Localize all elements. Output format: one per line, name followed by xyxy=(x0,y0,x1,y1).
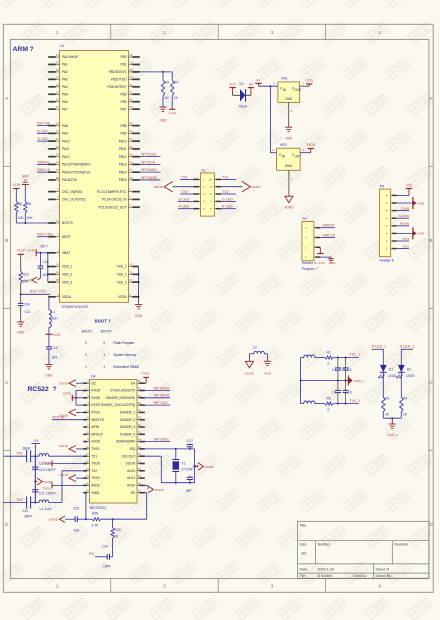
junction BOOT0/R9 xyxy=(24,222,26,224)
wire R LED down xyxy=(382,349,384,365)
svg-text:12: 12 xyxy=(56,68,59,72)
svg-text:U1: U1 xyxy=(60,44,64,48)
svg-text:Sheet of: Sheet of xyxy=(376,567,389,571)
svg-text:Date:: Date: xyxy=(300,567,309,571)
svg-text:TVSS: TVSS xyxy=(91,476,99,480)
svg-text:C4: C4 xyxy=(332,390,336,394)
svg-text:PA14/JTCK/SWCLK: PA14/JTCK/SWCLK xyxy=(62,170,92,174)
resistor R4 xyxy=(171,72,173,80)
svg-text:45: 45 xyxy=(129,122,132,126)
svg-text:SWCLK: SWCLK xyxy=(37,168,50,172)
power +3.3V at L1/C13 node xyxy=(46,333,52,335)
power SGND at U4 TVSS pin10 xyxy=(76,448,84,450)
svg-text:PB9: PB9 xyxy=(120,132,126,136)
power 4V at D1 cathode xyxy=(250,88,252,96)
svg-text:10K: 10K xyxy=(27,216,34,220)
ground GND P5 pin7 xyxy=(397,202,413,204)
svg-text:VSSA: VSSA xyxy=(118,295,127,299)
svg-text:PA3: PA3 xyxy=(62,78,68,82)
svg-text:OUT: OUT xyxy=(295,88,302,92)
svg-text:R LED_1: R LED_1 xyxy=(372,345,387,349)
svg-text:+3.3V: +3.3V xyxy=(317,261,326,265)
wire VR2 GND pin 1 xyxy=(288,170,290,196)
capacitor C20 15P xyxy=(189,476,191,478)
power TVDD at U4 AVDD pin15 xyxy=(52,484,84,486)
net label MT2 P5 pin1 xyxy=(397,248,410,250)
IC U1 pin VBAT xyxy=(48,252,56,254)
svg-text:C22: C22 xyxy=(22,509,28,513)
svg-text:22: 22 xyxy=(138,452,141,456)
svg-text:PA15/JTDI: PA15/JTDI xyxy=(62,178,77,182)
IC U1 left pins OSC_IN OSC_OUT xyxy=(48,191,56,193)
svg-text:C2: C2 xyxy=(347,368,351,372)
svg-text:SGND: SGND xyxy=(205,465,215,469)
svg-text:30: 30 xyxy=(138,394,141,398)
svg-text:D2/ADR_4: D2/ADR_4 xyxy=(120,425,135,429)
svg-text:GND: GND xyxy=(285,137,293,141)
svg-text:OSCOUT: OSCOUT xyxy=(122,454,136,458)
svg-text:SPI SCK: SPI SCK xyxy=(154,401,169,405)
svg-text:GND: GND xyxy=(264,372,272,376)
svg-text:1K: 1K xyxy=(165,96,170,100)
svg-text:I2C: I2C xyxy=(91,381,97,385)
svg-text:1K: 1K xyxy=(403,413,408,417)
svg-text:RX: RX xyxy=(34,439,40,443)
wire 4V rail down to VR2 xyxy=(269,86,271,153)
svg-text:15: 15 xyxy=(86,481,89,485)
junction VDD bus xyxy=(47,252,49,254)
svg-text:19: 19 xyxy=(138,474,141,478)
svg-text:MF RC522: MF RC522 xyxy=(90,506,107,510)
svg-text:0: 0 xyxy=(85,353,87,357)
svg-text:TX1: TX1 xyxy=(16,452,23,456)
svg-text:PVDD: PVDD xyxy=(91,389,101,393)
svg-text:2: 2 xyxy=(163,30,166,35)
svg-text:TX2_1: TX2_1 xyxy=(350,399,361,403)
svg-text:2016-1-29: 2016-1-29 xyxy=(318,567,334,571)
svg-text:104: 104 xyxy=(74,529,80,533)
svg-text:RST RF: RST RF xyxy=(37,122,51,126)
svg-text:G LED_1: G LED_1 xyxy=(400,345,415,349)
capacitor C13 xyxy=(46,346,52,348)
svg-text:SS34: SS34 xyxy=(239,104,247,108)
wire D2 to R4 xyxy=(400,372,402,397)
svg-text:15: 15 xyxy=(56,90,59,94)
svg-text:D:\folder\: D:\folder\ xyxy=(318,574,333,578)
svg-text:RST RF: RST RF xyxy=(53,416,67,420)
IC U4 left pins xyxy=(83,382,87,384)
svg-text:RST CPU: RST CPU xyxy=(30,290,46,294)
svg-text:R LED: R LED xyxy=(222,205,233,209)
resistor R9 xyxy=(24,185,26,202)
svg-text:C13: C13 xyxy=(51,346,57,350)
svg-text:PC13-TAMPER-RTC: PC13-TAMPER-RTC xyxy=(97,190,127,194)
svg-text:4: 4 xyxy=(378,584,381,589)
svg-text:TX1: TX1 xyxy=(91,454,97,458)
svg-text:D3/ADR_3: D3/ADR_3 xyxy=(120,418,135,422)
svg-text:SGND: SGND xyxy=(154,185,164,189)
svg-text:SPI SCK: SPI SCK xyxy=(141,160,156,164)
svg-text:MFOUT: MFOUT xyxy=(91,432,102,436)
svg-text:46: 46 xyxy=(129,129,132,133)
svg-text:1: 1 xyxy=(56,30,59,35)
svg-text:32: 32 xyxy=(56,145,59,149)
svg-text:R1: R1 xyxy=(327,350,331,354)
svg-text:+3.3V: +3.3V xyxy=(52,333,61,337)
diode D1 SS34 xyxy=(240,89,245,102)
wire L1 to C13 xyxy=(48,328,50,347)
svg-text:20: 20 xyxy=(138,467,141,471)
net label SPI MISO on PB14 xyxy=(140,171,161,173)
power VCC P5 pin8 xyxy=(397,194,410,196)
capacitor C21 150PF xyxy=(34,482,36,490)
capacitor C2 xyxy=(345,358,347,368)
svg-text:ARM: ARM xyxy=(13,46,29,53)
svg-text:TX2: TX2 xyxy=(91,469,97,473)
svg-text:IRQ: IRQ xyxy=(130,447,136,451)
capacitor C23 xyxy=(74,516,76,522)
svg-text:GND: GND xyxy=(135,314,143,318)
svg-text:25: 25 xyxy=(129,263,132,267)
svg-text:MFIN: MFIN xyxy=(91,425,99,429)
svg-text:R20: R20 xyxy=(114,528,120,532)
svg-text:?: ? xyxy=(30,46,34,53)
LED D2 xyxy=(398,365,405,372)
svg-text:Drawn By:: Drawn By: xyxy=(376,574,393,578)
svg-text:D1: D1 xyxy=(240,82,244,86)
svg-text:PB6: PB6 xyxy=(120,100,126,104)
resistor R3 1K (LED) xyxy=(382,397,385,412)
svg-text:68PF: 68PF xyxy=(25,515,33,519)
svg-text:SPI MISO: SPI MISO xyxy=(154,386,170,390)
svg-text:P1: P1 xyxy=(202,169,206,173)
svg-text:Y1: Y1 xyxy=(181,462,185,466)
svg-text:D6/ADR_0/MOSI/NL: D6/ADR_0/MOSI/NL xyxy=(106,396,135,400)
wire BOOT0 net xyxy=(16,222,48,224)
svg-text:MT1: MT1 xyxy=(403,237,409,241)
wire U4 RX pin17 down xyxy=(145,492,147,494)
svg-text:R9: R9 xyxy=(27,202,31,206)
IC U1 right pins PB0-PB7 xyxy=(129,56,133,58)
resistor R2 0 xyxy=(325,402,333,405)
svg-text:33: 33 xyxy=(56,153,59,157)
svg-text:PA12: PA12 xyxy=(62,155,70,159)
svg-text:1: 1 xyxy=(103,365,105,369)
svg-text:SPI SSEL: SPI SSEL xyxy=(154,438,170,442)
svg-text:AUX1: AUX1 xyxy=(127,476,136,480)
wire match top net xyxy=(301,357,304,359)
svg-text:KeySW: KeySW xyxy=(399,214,409,218)
connector P1 left pins xyxy=(194,178,200,180)
svg-text:SDA/NSS/RX: SDA/NSS/RX xyxy=(116,440,136,444)
IC U1 pin BOOT0 xyxy=(48,222,56,224)
svg-text:39: 39 xyxy=(129,75,132,79)
capacitor C22 68PF xyxy=(26,497,28,509)
svg-text:G LED: G LED xyxy=(179,197,190,201)
svg-text:TX2: TX2 xyxy=(222,190,229,194)
svg-text:LED0: LED0 xyxy=(388,374,397,378)
IC U1 pin VDDA xyxy=(48,296,56,298)
power SGND left P1 pin2 xyxy=(172,186,193,188)
svg-text:RXSW: RXSW xyxy=(400,222,409,226)
svg-text:1K: 1K xyxy=(385,413,390,417)
power +3.3V P4 pin2 xyxy=(319,247,321,253)
svg-text:PA0-WKUP: PA0-WKUP xyxy=(62,55,78,59)
net label RST CPU wire xyxy=(21,293,50,295)
power +3.3V at R8 top xyxy=(13,188,19,190)
net label MT1 P5 pin2 xyxy=(397,240,410,242)
svg-text:ZS8N: ZS8N xyxy=(401,207,409,211)
IC U1 left pins PA8-PA15 xyxy=(48,125,56,127)
svg-text:L3: L3 xyxy=(40,461,44,465)
svg-text:21: 21 xyxy=(129,137,132,141)
svg-text:P4: P4 xyxy=(303,217,307,221)
net label ZS8N P5 pin6 xyxy=(397,210,410,212)
wire G LED down xyxy=(400,349,402,365)
power +3.3V below R4 xyxy=(169,108,175,110)
net label SWDIO on PA13 xyxy=(37,163,49,165)
svg-text:System Memory: System Memory xyxy=(113,353,136,357)
wire R13 to C11 xyxy=(20,283,22,303)
capacitor C11 xyxy=(18,302,24,304)
svg-text:AVDD: AVDD xyxy=(91,484,100,488)
capacitor C19 150PF xyxy=(34,456,36,467)
wire VDD bus vertical xyxy=(47,253,49,282)
connector P1 right pins xyxy=(214,178,215,180)
resistor R20 xyxy=(112,519,114,527)
svg-text:Size: Size xyxy=(300,543,307,547)
net label RXSW P5 pin4 xyxy=(397,225,410,227)
svg-text:VDDA: VDDA xyxy=(62,295,72,299)
wire PB2/BOOT1 to R3 R4 xyxy=(140,71,173,73)
svg-text:G LED: G LED xyxy=(37,137,48,141)
svg-text:PB15: PB15 xyxy=(119,178,127,182)
inductor match bottom xyxy=(304,401,315,404)
power SGND at U4 pin1 I2C xyxy=(76,382,84,384)
svg-text:R26: R26 xyxy=(92,512,98,516)
svg-text:BOOT1: BOOT1 xyxy=(82,329,93,333)
svg-text:10: 10 xyxy=(86,445,89,449)
svg-text:SGND: SGND xyxy=(49,518,59,522)
svg-text:2.7K: 2.7K xyxy=(92,524,100,528)
power TVDD at U4 EA pin32 xyxy=(145,382,147,384)
net label SPI SCK at U4 D5 xyxy=(145,404,171,406)
svg-text:TVDD: TVDD xyxy=(42,486,51,490)
svg-text:PB10: PB10 xyxy=(119,139,127,143)
net label SWCLK on PA14 xyxy=(37,171,49,173)
junction C10 xyxy=(40,252,42,254)
svg-text:1uH: 1uH xyxy=(45,461,52,465)
svg-text:23: 23 xyxy=(138,445,141,449)
svg-text:PC15-OSC32_OUT: PC15-OSC32_OUT xyxy=(99,205,127,209)
svg-text:10K: 10K xyxy=(18,216,25,220)
svg-text:PB8: PB8 xyxy=(120,124,126,128)
svg-text:D5/ADR_1/SCLK/DTRQ: D5/ADR_1/SCLK/DTRQ xyxy=(101,403,136,407)
svg-text:R13: R13 xyxy=(22,272,28,276)
svg-text:SGND: SGND xyxy=(155,488,165,492)
wire LED common xyxy=(383,417,401,419)
svg-text:25: 25 xyxy=(138,430,141,434)
svg-text:GND: GND xyxy=(22,175,30,179)
svg-text:1uH: 1uH xyxy=(51,317,58,321)
svg-text:48: 48 xyxy=(56,278,59,282)
svg-text:BOOT0: BOOT0 xyxy=(101,329,112,333)
svg-text:PB13: PB13 xyxy=(119,163,127,167)
svg-text:R3: R3 xyxy=(165,81,169,85)
svg-text:VBAT: VBAT xyxy=(62,251,70,255)
wire VDDA to L1 xyxy=(48,296,50,298)
svg-text:SGND: SGND xyxy=(59,473,69,477)
net label TX1 right P1 pin10 xyxy=(221,178,236,180)
svg-text:B: B xyxy=(429,238,432,243)
svg-text:SVDD: SVDD xyxy=(91,440,101,444)
svg-text:SGND: SGND xyxy=(59,444,69,448)
svg-text:29: 29 xyxy=(56,122,59,126)
svg-text:TVSS: TVSS xyxy=(91,447,99,451)
net label SPI SSEL on PB12 xyxy=(140,156,161,158)
IC U1 right pins VSS_1 VSS_2 VSS_3 xyxy=(129,266,133,268)
wire L2 left down xyxy=(248,354,250,362)
wire D1 to 4V xyxy=(246,94,251,96)
resistor R8 xyxy=(15,189,17,202)
IC U4 right pins xyxy=(137,382,139,384)
power GND arrow at C10 xyxy=(38,278,41,280)
crystal Y1 27.12M xyxy=(175,449,177,460)
svg-text:29: 29 xyxy=(138,401,141,405)
svg-text:3: 3 xyxy=(271,584,274,589)
svg-text:C17: C17 xyxy=(187,439,193,443)
ground GND below VR1 xyxy=(285,126,292,128)
IC U1 right pins PB8-PB15 xyxy=(129,125,133,127)
svg-text:1uH: 1uH xyxy=(45,507,52,511)
svg-text:PA1: PA1 xyxy=(62,63,68,67)
svg-text:PC14-OSC32_IN: PC14-OSC32_IN xyxy=(102,198,127,202)
svg-text:G LED: G LED xyxy=(222,197,233,201)
svg-text:OSC_IN(PD0): OSC_IN(PD0) xyxy=(62,190,82,194)
svg-text:PA6: PA6 xyxy=(62,100,68,104)
svg-text:17: 17 xyxy=(56,105,59,109)
power SGND at U4 AVSS pin18 xyxy=(145,484,149,486)
IC U1 right pin VSSA xyxy=(129,296,133,298)
svg-text:15PF: 15PF xyxy=(103,565,111,569)
svg-text:OSC_OUT(PD1): OSC_OUT(PD1) xyxy=(62,198,86,202)
wire OSCIN to crystal xyxy=(145,455,162,457)
net label RST CPU on NRST xyxy=(37,236,49,238)
svg-text:1K: 1K xyxy=(174,96,179,100)
svg-text:PA13/JTMS/SWDIO: PA13/JTMS/SWDIO xyxy=(62,163,91,167)
svg-text:L4: L4 xyxy=(40,507,44,511)
svg-text:35: 35 xyxy=(129,270,132,274)
wire match bottom net xyxy=(301,403,304,405)
svg-text:D4/ADR_2: D4/ADR_2 xyxy=(120,411,135,415)
wire VBAT/VDD xyxy=(36,252,48,254)
capacitor C1 xyxy=(337,358,339,368)
svg-text:GND: GND xyxy=(285,97,293,101)
svg-text:?: ? xyxy=(108,319,111,324)
inductor L4 1uH xyxy=(39,500,49,503)
svg-text:C21 150PF: C21 150PF xyxy=(39,492,56,496)
svg-text:VMID: VMID xyxy=(91,491,100,495)
connector P5 pins xyxy=(391,194,392,196)
svg-text:10: 10 xyxy=(56,53,59,57)
svg-text:VDD_1: VDD_1 xyxy=(62,265,73,269)
svg-text:D1/ADR_5: D1/ADR_5 xyxy=(120,432,135,436)
net label TX2 right P1 pin8 xyxy=(221,193,236,195)
net label SWCLK P4 pin3 xyxy=(320,237,335,239)
svg-text:Flash Program: Flash Program xyxy=(113,341,134,345)
svg-text:R LED: R LED xyxy=(179,205,190,209)
svg-text:C24: C24 xyxy=(102,545,108,549)
svg-text:RST CPU: RST CPU xyxy=(37,233,53,237)
svg-text:PB0: PB0 xyxy=(120,55,126,59)
svg-text:18: 18 xyxy=(129,53,132,57)
resistor R3 xyxy=(162,72,164,80)
svg-text:DVDD: DVDD xyxy=(91,396,101,400)
svg-text:VCC: VCC xyxy=(406,183,413,187)
svg-text:PA7: PA7 xyxy=(62,107,68,111)
svg-text:D2: D2 xyxy=(407,368,411,372)
svg-text:PB3/JTDO: PB3/JTDO xyxy=(111,78,127,82)
net label SPI MOSI at U4 D6 xyxy=(145,397,171,399)
wire VR1 pin 2 to +3.3V xyxy=(300,85,310,87)
svg-text:D1: D1 xyxy=(389,368,393,372)
wire crystal bottom xyxy=(161,482,194,484)
svg-text:38: 38 xyxy=(56,176,59,180)
svg-text:34: 34 xyxy=(56,160,59,164)
svg-text:31: 31 xyxy=(56,137,59,141)
svg-text:21: 21 xyxy=(138,460,141,464)
svg-text:R4: R4 xyxy=(403,397,407,401)
svg-text:SPI MOSI: SPI MOSI xyxy=(154,394,170,398)
svg-text:VR1: VR1 xyxy=(281,77,288,81)
svg-text:+3.3V: +3.3V xyxy=(16,248,25,252)
power SGND right of crystal xyxy=(198,463,204,470)
svg-text:Header 8: Header 8 xyxy=(380,259,394,263)
svg-text:PA8: PA8 xyxy=(62,124,68,128)
svg-text:19: 19 xyxy=(129,60,132,64)
resistor R1 0 xyxy=(325,356,333,359)
net label SWDIO P4 pin4 xyxy=(320,227,335,229)
svg-text:104: 104 xyxy=(24,302,30,306)
svg-text:+3.3V: +3.3V xyxy=(12,183,21,187)
svg-text:PB12: PB12 xyxy=(119,155,127,159)
svg-text:R8: R8 xyxy=(18,202,22,206)
svg-text:AUX2: AUX2 xyxy=(127,469,136,473)
svg-text:\.SchDoc: \.SchDoc xyxy=(352,574,367,578)
svg-text:VDD_3: VDD_3 xyxy=(62,280,73,284)
wire right vertical of crystal loop xyxy=(194,449,196,483)
svg-text:NRST: NRST xyxy=(62,235,71,239)
svg-text:SGND: SGND xyxy=(44,480,54,484)
svg-text:SGND: SGND xyxy=(245,372,255,376)
svg-text:?: ? xyxy=(46,245,48,249)
svg-text:GND: GND xyxy=(159,119,167,123)
svg-text:STM32F103C8T6: STM32F103C8T6 xyxy=(62,305,89,309)
svg-text:VDD_2: VDD_2 xyxy=(62,273,73,277)
power SGND below L2 left xyxy=(245,361,253,368)
wire U4 VMID pin16 down xyxy=(84,492,86,494)
svg-text:SWCLK: SWCLK xyxy=(322,233,335,237)
zone tick marks xyxy=(110,24,112,39)
svg-text:RX: RX xyxy=(89,552,95,556)
wire PVDD DVDD DVSS bus xyxy=(76,390,84,392)
svg-text:R2: R2 xyxy=(41,245,45,249)
svg-text:R3: R3 xyxy=(385,397,389,401)
svg-text:0: 0 xyxy=(328,362,330,366)
svg-text:14: 14 xyxy=(56,83,59,87)
wire VR1 GND pin 1 xyxy=(288,102,290,127)
svg-text:DVSS: DVSS xyxy=(91,403,100,407)
